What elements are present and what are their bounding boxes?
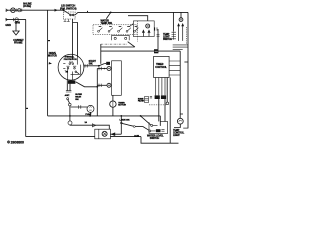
wire to node circle [166,78,168,103]
wire top line after lid switch [75,12,188,14]
svg-text:(P.M. SWITCH): (P.M. SWITCH) [60,6,77,10]
wire pump box right with arrow [110,133,121,135]
wire light down corner [174,124,180,127]
connector on neutral stub [13,18,18,22]
lower switch blade [122,123,133,126]
lower switch contact [120,122,122,124]
filter block [145,97,149,103]
tick border [183,127,188,129]
wire timer motor to bus [112,107,114,116]
stub on top wire [87,11,89,13]
connector ticks pair [66,91,72,92]
tick on light wire [180,113,183,115]
svg-text:SW.: SW. [75,99,79,101]
wire into T2 [97,84,107,86]
pump motor circle [87,105,94,112]
wire ground vertical [25,20,27,137]
svg-text:MOTOR: MOTOR [48,54,57,57]
drain box divider [98,129,100,139]
svg-text:PROTECTOR: PROTECTOR [64,59,77,61]
water valve box [133,21,154,37]
power cord tick N [6,18,8,21]
dashed vertical near border [185,27,187,45]
wire neutral stub [6,19,27,21]
power cord tick L1 [6,9,8,12]
tick on ground vertical [26,107,28,109]
wire bus into WLS box [159,116,161,126]
open triangle connector [92,124,95,127]
connector pair on L1 [17,9,22,12]
svg-text:(FUSE): (FUSE) [23,5,31,8]
ground arrow [13,31,19,35]
temp switch box dashed [93,25,137,35]
drain pump circle-X [102,131,107,136]
node motor-bus join [96,86,98,88]
wire box bottom to timer motor [112,95,114,101]
wire pump to bus [90,112,92,116]
contact upper [67,98,69,100]
temp switch contacts row [98,27,139,33]
tick W on vertical [48,40,50,42]
valve right connector [155,27,157,30]
node circle right of dashes [166,102,169,105]
svg-text:L.SIDE SW.: L.SIDE SW. [120,119,131,121]
connector triangle on L1 [55,9,58,12]
motor protector circle [69,116,71,121]
wire row 47 [101,46,135,48]
wire bottom bus left [26,136,95,138]
wire protector to pump box [70,125,109,129]
vertical feed left of rows [100,44,102,64]
node start switch [98,65,100,67]
grn arrow to motor [49,62,52,64]
connector ticks left of loop1 [150,96,152,98]
ground symbol stem [15,22,17,32]
WLS blade 1 [141,116,151,125]
wire into valve from left [130,24,134,27]
arrow stems [179,26,183,41]
wire motor exit diagonal [76,82,98,87]
svg-text:LIGHT: LIGHT [173,134,180,137]
timer right side taps [169,61,180,75]
wires motor bottom pair [67,80,70,91]
wire blade to terminal [104,63,106,65]
wires contacts in box [151,125,158,130]
wire bottom bus mid [110,136,141,138]
loop contacts [114,37,116,39]
bottom bus right [149,142,179,144]
timer dashed row [149,104,166,106]
lid switch blade [64,10,70,14]
wires timer to water level [158,99,160,121]
timer loops below [155,78,157,96]
diagonal to timer [128,42,135,47]
terminal T1 [107,67,111,71]
motor start wire right [84,65,99,67]
fuse F1 (circle-X) [11,8,16,13]
connector column [172,31,177,40]
wire switch to WLS [135,125,142,127]
contact loop under temp box [112,35,130,40]
wire lower bus from vertical [48,115,161,117]
timer box [154,56,170,77]
water level switch common node [140,115,142,117]
connector on start wire [85,64,87,67]
wire light to top [180,12,182,17]
wire main vertical from L1 [47,10,49,116]
wire dashdot row [101,43,128,45]
valve solenoid arrows [142,29,151,32]
right rows upper [173,45,188,49]
motor internal contacts [63,57,80,80]
wire into T1 [97,68,107,70]
start switch blade [99,64,105,66]
temp switch blade [106,12,110,18]
timer motor circle [110,101,116,107]
svg-text:© 2608800: © 2608800 [7,140,24,144]
terminal T2 [107,83,111,87]
wire light vertical [179,51,181,118]
timer loop elements [155,95,160,99]
conn ticks right [161,130,164,132]
svg-text:SWITCH: SWITCH [163,38,172,41]
svg-text:FILTER: FILTER [138,101,145,103]
motor lower winding blob [68,80,75,83]
node pump bus [89,115,91,117]
wire from lid switch down [72,19,74,59]
terminal block square [106,62,110,65]
wire contact down to bus [69,106,71,116]
lid switch box dashed [63,12,75,19]
border tick [184,61,188,63]
WLS blade 2 [143,126,149,130]
WLS wiper block [156,129,161,132]
node temp switch [110,12,112,14]
valve arrows up pair [177,23,184,26]
wire WLS to bottom [141,137,149,144]
wire to pump [71,106,88,108]
lid switch contacts [70,14,72,16]
water valve wire upper [128,16,148,21]
wire left vertical T1-T2-bus [96,69,98,116]
valve coil circle-X [146,24,150,28]
node at lid switch [63,9,65,11]
wire valve right down [157,29,159,49]
wire down from bus to arrow wire [120,116,122,134]
svg-text:SW.: SW. [89,62,94,65]
svg-text:COM: COM [134,136,139,138]
node bus left [69,115,71,117]
wire jog to motor [73,23,78,58]
svg-text:CONTROL: CONTROL [155,66,167,69]
wire down from top to connectors [172,12,174,31]
drain pump box [95,129,111,139]
svg-text:ST: ST [66,71,69,73]
switch blade lower [68,100,70,104]
wire top line 1 (line cord hot) [6,9,64,11]
valve solenoid stems [143,33,149,37]
svg-text:MOTOR: MOTOR [118,105,126,107]
svg-text:AGIT.: AGIT. [65,94,70,97]
wire row 51 [101,50,180,52]
control light bulb [177,118,183,124]
contact lower [69,103,72,106]
node [120,115,122,117]
wire timer right down to bottom [169,78,171,144]
svg-text:SWITCH: SWITCH [150,137,160,140]
label TIMER block [154,49,158,53]
svg-text:GND: GND [5,23,11,27]
svg-text:1A: 1A [85,121,88,124]
plunger marks under lid box [64,19,70,22]
WLS box outline [149,122,168,134]
console light circle-X [179,18,183,22]
ticks on valve drop [157,35,160,37]
push-to-start rect [112,61,122,96]
svg-text:FRAME: FRAME [14,42,23,45]
drive motor circle [58,54,84,80]
wire right border down [187,12,189,128]
dashed vertical in valve box [136,21,138,42]
